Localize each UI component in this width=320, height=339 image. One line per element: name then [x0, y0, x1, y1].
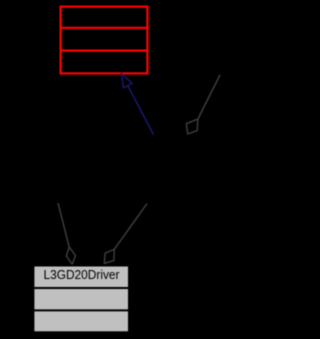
- wire: edge C shaft: [114, 204, 147, 250]
- wire: edge A shaft: [198, 75, 220, 119]
- edge B: usage edge from hidden left node to L3GD20Driver: [58, 203, 76, 264]
- node: L3GD20Driver class box (current node, gray): [32, 266, 130, 333]
- wire: inheritance edge shaft: [128, 86, 154, 135]
- edge A: usage edge from hidden top-right node to hidden middle node: [186, 75, 220, 134]
- arrowhead: hollow triangle: [121, 74, 132, 88]
- node: red class box (truncated graph node): [60, 7, 149, 74]
- arrowhead: open diamond B: [66, 247, 75, 264]
- arrowhead: open diamond C: [104, 249, 114, 263]
- wire: edge B shaft: [58, 203, 69, 247]
- edge C: usage edge from hidden middle node to L3GD20Driver: [104, 204, 147, 264]
- arrowhead: open diamond A: [186, 119, 198, 134]
- svg-text:L3GD20Driver: L3GD20Driver: [44, 267, 121, 282]
- edge: inheritance arrow (midnightblue) from hidden middle node to red box: [121, 74, 153, 135]
